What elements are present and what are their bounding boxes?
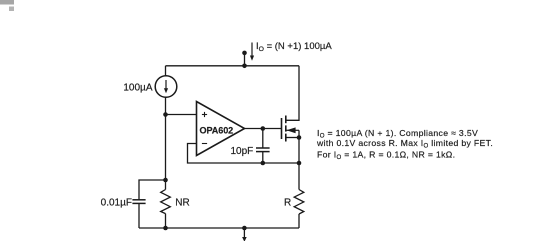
wire ground stub	[243, 228, 245, 238]
capacitor C2 0.01uF	[132, 200, 145, 204]
node noninverting junction	[163, 112, 168, 117]
resistor R	[294, 190, 304, 215]
wire current source to noninverting node	[165, 97, 167, 180]
scan smudge top-left square	[9, 7, 14, 12]
svg-text:10pF: 10pF	[231, 146, 254, 157]
svg-text:100µA: 100µA	[123, 82, 152, 93]
wire drain riser	[286, 66, 299, 121]
label NR	[175, 197, 189, 208]
wire NR bottom lead	[165, 214, 167, 228]
svg-text:NR: NR	[175, 197, 189, 208]
label Io = (N +1) 100uA	[256, 41, 332, 53]
node NR top junction	[163, 178, 168, 183]
wire left branch upper	[165, 66, 167, 76]
ground	[242, 237, 247, 241]
wire op-amp output to gate	[245, 128, 282, 130]
resistor NR	[161, 190, 171, 214]
svg-text:IO = (N +1) 100µA: IO = (N +1) 100µA	[256, 41, 332, 53]
node 10pF bottom junction	[261, 161, 266, 166]
wire R bottom lead	[298, 214, 300, 228]
label 0.01uF	[101, 198, 132, 209]
wire output stub	[244, 53, 246, 66]
wire source column	[298, 138, 300, 190]
svg-text:OPA602: OPA602	[200, 125, 234, 135]
op-amp U1 OPA602	[197, 102, 245, 156]
note text line 3	[317, 149, 455, 161]
svg-text:0.01µF: 0.01µF	[101, 198, 132, 209]
wire top rail	[166, 65, 300, 67]
node source body junction	[297, 135, 302, 140]
svg-text:R: R	[284, 197, 291, 208]
transistor Q1 MOSFET	[282, 116, 300, 142]
scan smudge top-left bar	[0, 0, 14, 5]
svg-text:with 0.1V across R. Max IO lim: with 0.1V across R. Max IO limited by FE…	[316, 138, 493, 150]
wire capacitor branch top	[139, 180, 166, 199]
wire inverting input feedback	[188, 144, 300, 164]
node gate junction	[261, 126, 266, 131]
wire capacitor branch bottom	[138, 204, 140, 228]
node NR bottom junction	[163, 226, 168, 231]
current source I1 100uA	[155, 76, 177, 98]
label 10pF	[231, 146, 254, 157]
node ground junction	[242, 226, 247, 231]
capacitor C1 10pF	[256, 148, 270, 152]
wire 10pF bottom	[262, 152, 264, 163]
wire NR top lead	[165, 180, 167, 190]
node top rail junction	[242, 64, 247, 69]
wire 10pF top	[262, 129, 264, 149]
node feedback R junction	[297, 161, 302, 166]
wire bottom rail	[139, 227, 299, 229]
note text line 1	[317, 128, 478, 140]
svg-text:For IO = 1A, R = 0.1Ω, NR = 1k: For IO = 1A, R = 0.1Ω, NR = 1kΩ.	[317, 149, 455, 161]
label 100uA	[123, 82, 152, 93]
wire noninverting input	[166, 114, 197, 116]
arrow Io direction	[250, 43, 254, 61]
note text line 2	[316, 138, 493, 150]
label R	[284, 197, 291, 208]
node output terminal dot	[242, 51, 247, 56]
